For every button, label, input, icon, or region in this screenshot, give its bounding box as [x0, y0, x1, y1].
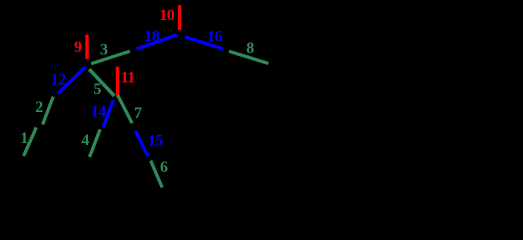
bond 3 (green) — [91, 51, 130, 64]
bond 16 (blue) — [185, 37, 223, 49]
svg-text:14: 14 — [91, 104, 107, 121]
bond 12 (blue) — [58, 67, 86, 94]
svg-text:5: 5 — [93, 81, 101, 98]
svg-text:3: 3 — [100, 41, 108, 58]
svg-text:1: 1 — [20, 130, 28, 147]
bond 1 (green) — [24, 127, 37, 156]
bond 10 (red vertical) — [178, 5, 181, 30]
bond 2 (green) — [43, 97, 54, 125]
bond 8 (green) — [229, 51, 268, 63]
bond 5 (green) — [89, 69, 114, 96]
bond 6 (green) — [151, 161, 163, 188]
svg-text:11: 11 — [121, 69, 136, 86]
svg-text:2: 2 — [35, 99, 43, 116]
bond 7 (green) — [118, 95, 133, 123]
bond 9 (red vertical) — [85, 35, 88, 60]
bond 15 (blue) — [135, 131, 148, 157]
bond 4 (green) — [90, 129, 101, 157]
bond 14 (blue) — [103, 100, 113, 127]
svg-text:16: 16 — [207, 29, 223, 46]
svg-text:18: 18 — [144, 28, 160, 45]
bond 18 (blue) — [137, 35, 177, 49]
svg-text:7: 7 — [134, 105, 142, 122]
svg-text:15: 15 — [148, 133, 164, 150]
svg-text:9: 9 — [74, 39, 82, 56]
svg-text:12: 12 — [51, 71, 67, 88]
svg-text:8: 8 — [246, 40, 254, 57]
svg-text:10: 10 — [159, 7, 175, 24]
svg-text:4: 4 — [81, 132, 89, 149]
bond 11 (red vertical) — [116, 67, 119, 97]
svg-text:6: 6 — [160, 159, 168, 176]
